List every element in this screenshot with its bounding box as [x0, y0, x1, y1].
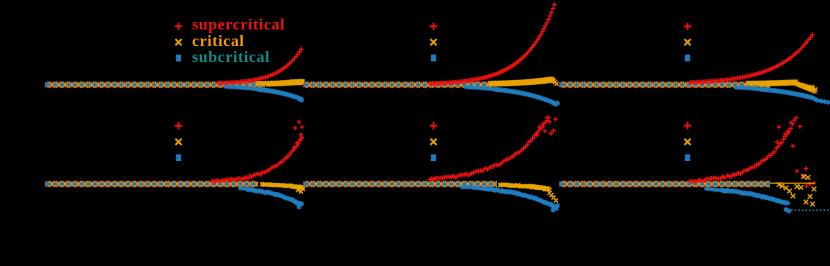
band of overlapped markers, panel row1 col1: [47, 81, 265, 88]
critical series curve with scatter, panel row2 col1: [260, 182, 305, 193]
first-point marker cluster at left edge, panel row1 col1: [45, 82, 51, 88]
legend marker samples, panel row1 col1: [175, 23, 182, 30]
supercritical series curve, panel row1 col3: [688, 33, 815, 85]
legend marker samples, panel row1 col3: [684, 23, 691, 30]
first-point marker cluster at left edge, panel row1 col3: [559, 82, 565, 88]
band of overlapped markers, panel row1 col3: [561, 81, 770, 88]
legend marker samples, panel row2 col3: [684, 122, 691, 129]
critical series line and scatter, panel row2 col3: [770, 182, 815, 184]
first-point marker cluster at left edge, panel row2 col3: [559, 181, 565, 187]
first-point marker cluster at left edge, panel row2 col2: [303, 181, 309, 187]
supercritical series curve, panel row1 col2: [428, 2, 557, 86]
critical series curve, panel row1 col2: [488, 77, 559, 87]
band of overlapped markers, panel row2 col1: [47, 181, 258, 188]
legend marker samples, panel row2 col2: [430, 122, 437, 129]
supercritical series curve, panel row1 col1: [216, 47, 304, 86]
critical series curve with scatter, panel row2 col2: [498, 183, 558, 203]
critical series curve, panel row1 col1: [256, 79, 305, 86]
svg-text:critical: critical: [192, 33, 244, 50]
band of overlapped markers, panel row1 col2: [305, 81, 492, 88]
legend marker samples, panel row2 col1: [175, 122, 182, 129]
subcritical series curve with scatter, panel row2 col2: [460, 185, 492, 191]
supercritical series curve with scatter, panel row2 col2: [428, 115, 558, 182]
legend marker samples, panel row1 col2: [430, 23, 437, 30]
band of overlapped markers, panel row2 col3: [561, 181, 770, 188]
svg-text:subcritical: subcritical: [192, 49, 270, 66]
subcritical series curve, panel row1 col2: [464, 85, 502, 92]
first-point marker cluster at left edge, panel row1 col2: [303, 82, 309, 88]
supercritical series curve with scatter, panel row2 col3: [688, 116, 817, 189]
first-point marker cluster at left edge, panel row2 col1: [45, 181, 51, 187]
subcritical series curve, panel row1 col1: [224, 85, 266, 92]
band of overlapped markers, panel row2 col2: [305, 181, 497, 188]
subcritical series curve and dotted tail, panel row2 col3: [704, 186, 730, 193]
subcritical series curve with scatter, panel row2 col1: [238, 186, 256, 192]
critical series curve, panel row1 col3: [746, 80, 818, 94]
supercritical series curve with scatter, panel row2 col1: [210, 120, 305, 184]
subcritical series curve, panel row1 col3: [734, 86, 768, 92]
svg-text:supercritical: supercritical: [192, 17, 285, 34]
